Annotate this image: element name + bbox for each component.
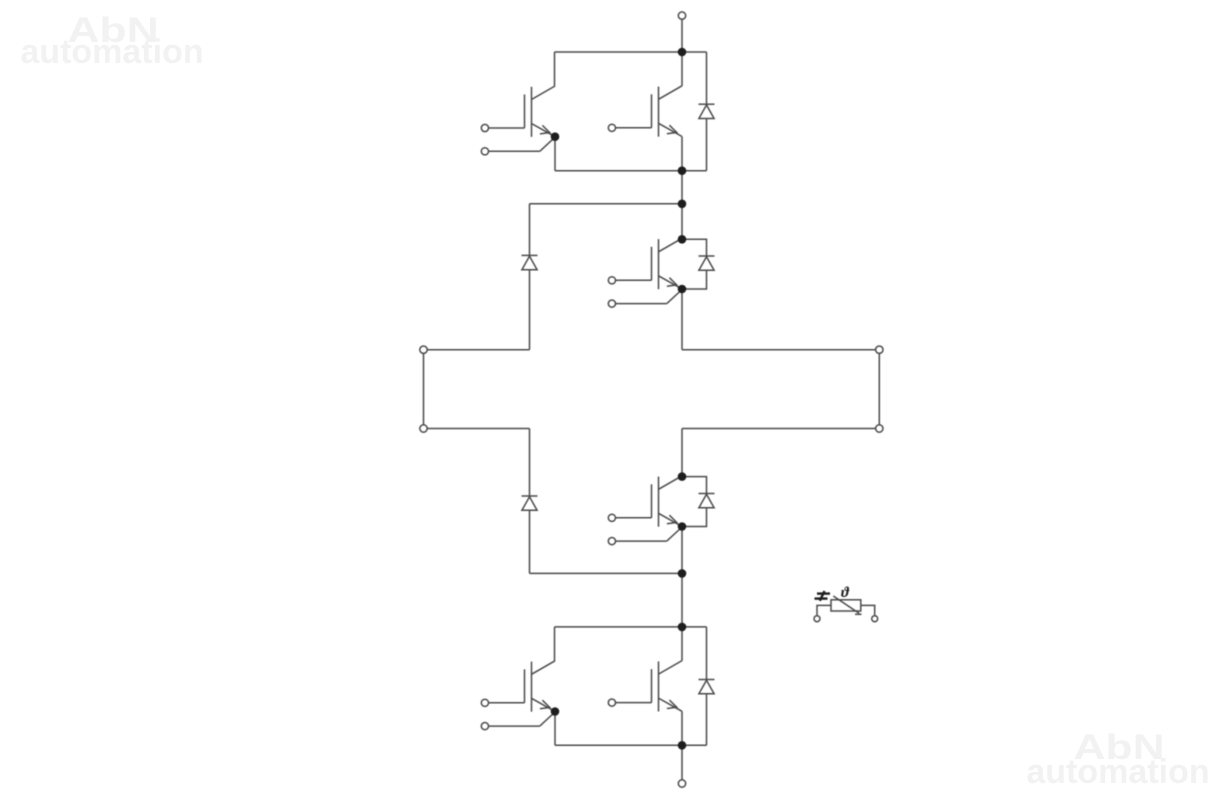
transistor T5 aux emitter — [481, 712, 555, 730]
wire top section bottom rail — [555, 170, 707, 172]
transistor T4 — [608, 476, 682, 527]
wire left terminals link — [423, 350, 425, 429]
wire lower mid rail right — [682, 428, 879, 430]
transistor T6 — [608, 661, 682, 712]
transistor T2 — [608, 86, 682, 137]
wire section2 top rail — [530, 203, 683, 205]
diode D4 — [522, 496, 538, 510]
wire T4 emitter drop — [681, 527, 683, 574]
wire top rail — [555, 51, 707, 53]
wire T6 emitter drop — [681, 711, 683, 745]
watermark top-left AbN — [0, 13, 240, 48]
thermistor R1 — [814, 596, 878, 622]
watermark top-left automation — [12, 35, 212, 69]
transistor T3 — [608, 238, 682, 289]
wire T1 collector drop — [554, 52, 556, 86]
watermark bottom-right automation — [1018, 755, 1218, 789]
wire D3 loop — [682, 239, 707, 289]
wire T6 collector drop — [681, 627, 683, 661]
svg-text:ϑ: ϑ — [841, 585, 850, 601]
wire bus section3-4 — [681, 573, 683, 627]
watermark bottom-right AbN — [992, 730, 1220, 765]
wire bottom section bottom rail — [555, 744, 707, 746]
wire bus to T3 collector — [681, 204, 683, 240]
diode D2 — [522, 255, 538, 269]
transistor T3 aux emitter — [608, 290, 682, 308]
wire T3 emitter drop — [681, 289, 683, 350]
wire T1 emitter drop — [554, 137, 556, 171]
wire T5 collector drop — [554, 627, 556, 661]
wire T2 emitter drop — [681, 137, 683, 171]
transistor T4 aux emitter — [608, 527, 682, 545]
wire top terminal stub — [681, 19, 683, 52]
thermistor temperature marks — [815, 591, 831, 601]
junction dots — [551, 48, 687, 750]
transistor T1 — [481, 86, 555, 137]
wire right terminals link — [878, 350, 880, 429]
wire D6 branch — [706, 627, 708, 745]
wire bottom section top rail — [555, 626, 707, 628]
wire T2 collector drop — [681, 52, 683, 86]
wire lower mid rail left — [424, 428, 530, 430]
transistor T5 — [481, 661, 555, 712]
wire upper mid rail right — [682, 349, 879, 351]
diode D3 — [699, 256, 715, 270]
wire D2 branch — [529, 204, 531, 350]
terminal circles — [420, 12, 883, 787]
wire section3 bottom rail — [530, 572, 683, 574]
wire D5 loop — [682, 477, 707, 527]
transistor T1 aux emitter — [481, 137, 555, 155]
wire D4 branch — [529, 429, 531, 574]
wire bus section1-2 — [681, 171, 683, 204]
wire upper mid rail left — [424, 349, 530, 351]
wire bottom terminal stub — [681, 745, 683, 780]
diode D6 — [699, 680, 715, 694]
diode D1 — [699, 104, 715, 118]
wire T4 collector drop — [681, 429, 683, 477]
wire T5 emitter drop — [554, 712, 556, 746]
diode D5 — [699, 494, 715, 508]
wire D1 branch — [706, 52, 708, 171]
